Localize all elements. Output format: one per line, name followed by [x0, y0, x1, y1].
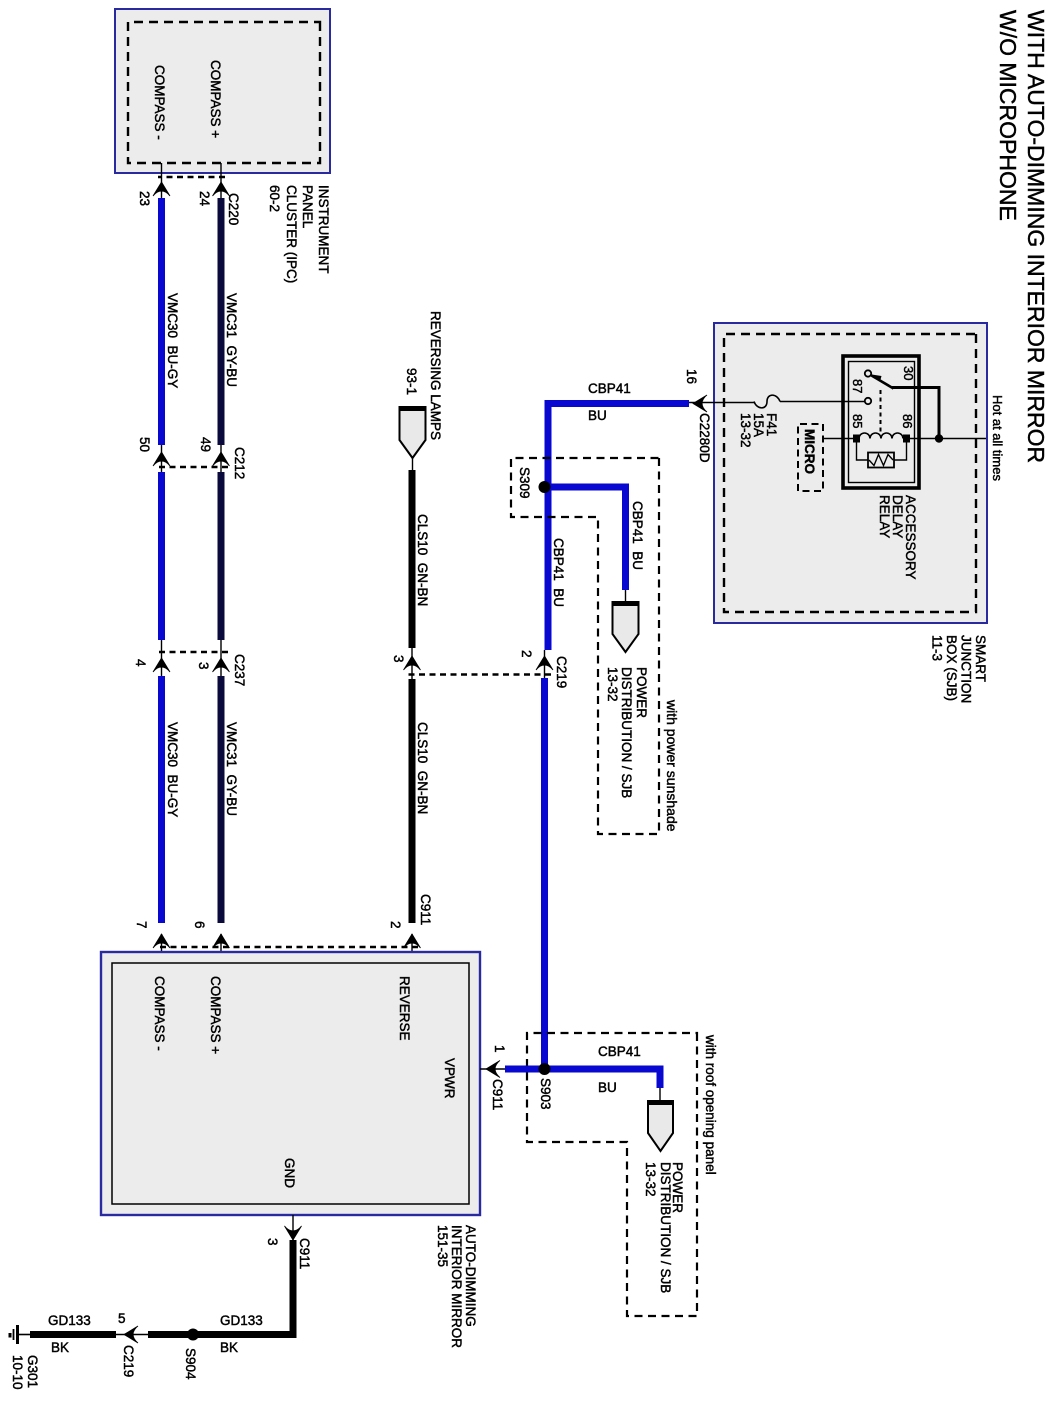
- svg-text:4: 4: [133, 659, 148, 667]
- svg-text:CBP41 BU: CBP41 BU: [630, 501, 645, 570]
- svg-text:VMC31 GY-BU: VMC31 GY-BU: [224, 293, 239, 387]
- hot feed line: [909, 438, 986, 440]
- mirror name label AUTO-DIMMING INTERIOR MIRROR 151-35: [435, 1225, 478, 1348]
- splice S309 dot: [539, 481, 551, 493]
- svg-text:S309: S309: [517, 467, 532, 499]
- svg-text:COMPASS +: COMPASS +: [208, 60, 223, 138]
- svg-text:BK: BK: [220, 1340, 238, 1355]
- S903 branch stub: [659, 1088, 661, 1101]
- instrument panel cluster (IPC) box: [115, 9, 330, 173]
- svg-text:60-2: 60-2: [267, 185, 282, 212]
- svg-text:C237: C237: [232, 654, 247, 686]
- svg-text:1: 1: [492, 1045, 507, 1053]
- C212 arrow on VMC31: [213, 452, 230, 466]
- connector C212 dashed tie: [155, 466, 228, 468]
- svg-text:G301: G301: [25, 1355, 40, 1388]
- wire VMC31 GY-BU segment 2: [218, 472, 225, 640]
- wire GD133 BK from C219 to ground: [30, 1331, 116, 1338]
- svg-text:87: 87: [850, 379, 865, 393]
- svg-text:CBP41: CBP41: [588, 381, 631, 396]
- VPWR drop lead: [480, 1068, 505, 1070]
- svg-text:30: 30: [901, 366, 916, 380]
- C911 pin 7 arrow: [153, 934, 170, 948]
- svg-text:COMPASS -: COMPASS -: [152, 976, 167, 1051]
- wire CBP41 BU from pin 16 to C219: [548, 404, 689, 651]
- svg-text:CBP41: CBP41: [598, 1044, 641, 1059]
- svg-text:C2280D: C2280D: [697, 413, 712, 463]
- splice S903 dot: [539, 1063, 551, 1075]
- svg-text:COMPASS +: COMPASS +: [208, 976, 223, 1054]
- svg-text:S904: S904: [183, 1348, 198, 1380]
- svg-text:GD133: GD133: [48, 1313, 91, 1328]
- svg-text:13-32: 13-32: [643, 1162, 658, 1197]
- svg-text:3: 3: [391, 655, 406, 663]
- svg-text:DISTRIBUTION / SJB: DISTRIBUTION / SJB: [658, 1162, 673, 1293]
- svg-text:AUTO-DIMMING: AUTO-DIMMING: [463, 1225, 478, 1327]
- svg-text:GND: GND: [282, 1158, 297, 1188]
- C911 pin 6 arrow: [213, 934, 230, 948]
- dashed option region with power sunshade: [511, 458, 659, 834]
- svg-text:23: 23: [137, 191, 152, 206]
- svg-text:50: 50: [137, 437, 152, 452]
- svg-text:151-35: 151-35: [435, 1225, 450, 1267]
- svg-text:C911: C911: [297, 1238, 312, 1269]
- relay switch arm: [869, 374, 894, 389]
- connector C911 dashed tie at mirror: [156, 946, 418, 948]
- svg-text:VMC30 BU-GY: VMC30 BU-GY: [165, 293, 180, 388]
- relay name label ACCESSORY DELAY RELAY: [877, 495, 918, 580]
- svg-text:13-32: 13-32: [738, 413, 753, 448]
- svg-text:5: 5: [118, 1311, 126, 1326]
- svg-text:WITH AUTO-DIMMING INTERIOR MIR: WITH AUTO-DIMMING INTERIOR MIRROR: [1023, 10, 1049, 463]
- C219 arrow on CLS10 pin 3: [404, 656, 421, 670]
- svg-text:6: 6: [192, 921, 207, 929]
- svg-text:JUNCTION: JUNCTION: [959, 635, 974, 703]
- svg-text:11-3: 11-3: [930, 635, 945, 661]
- line from coil 85 to micro box: [823, 438, 853, 440]
- C212 arrow on VMC30: [153, 452, 170, 466]
- wire CLS10 thin bridge at C219: [411, 648, 413, 679]
- svg-text:BOX (SJB): BOX (SJB): [944, 635, 959, 701]
- wire CLS10 GN-BN segment 2: [409, 679, 416, 923]
- line from 87 contact to fuse: [780, 401, 866, 403]
- svg-text:C911: C911: [490, 1079, 505, 1110]
- svg-text:BU: BU: [598, 1080, 617, 1095]
- svg-text:2: 2: [519, 650, 534, 658]
- svg-text:with roof opening panel: with roof opening panel: [703, 1034, 718, 1175]
- wire VMC30 thin bridge at C212: [161, 445, 163, 472]
- svg-text:13-32: 13-32: [605, 667, 620, 702]
- wire VMC30 BU-GY segment 1: [158, 198, 165, 445]
- relay switch pivot contact circle: [865, 370, 871, 376]
- svg-text:VMC31 GY-BU: VMC31 GY-BU: [224, 722, 239, 816]
- hot feed junction dot: [935, 434, 943, 442]
- C220 pin 24 lead: [220, 163, 222, 198]
- relay coil: [859, 433, 903, 439]
- wire VMC31 GY-BU segment 1: [218, 198, 225, 445]
- relay suppression resistor: [857, 439, 907, 468]
- C2280D pin 16 arrow: [693, 395, 707, 412]
- GND lead from mirror box: [292, 1215, 294, 1240]
- svg-text:CBP41 BU: CBP41 BU: [551, 538, 566, 607]
- power distribution arrow symbol (roof): [647, 1101, 674, 1151]
- reversing lamps origin arrow symbol: [399, 407, 427, 458]
- svg-text:REVERSE: REVERSE: [397, 976, 412, 1041]
- svg-text:COMPASS -: COMPASS -: [152, 65, 167, 140]
- relay coil terminal square 86: [903, 435, 910, 443]
- C237 arrow on VMC30: [153, 658, 170, 672]
- svg-text:85: 85: [850, 414, 865, 428]
- C911 pin 2 arrow: [404, 934, 421, 948]
- svg-text:C219: C219: [121, 1345, 136, 1377]
- C911 pin 3 arrow: [285, 1226, 302, 1240]
- ground symbol G301: [10, 1325, 30, 1344]
- wire GD133 BK from mirror to S904 and C219: [148, 1240, 293, 1335]
- wire VMC31 GY-BU segment 3: [218, 676, 225, 923]
- reversing lamps stub: [412, 458, 414, 470]
- VPWR drop wire CBP41: [505, 1066, 548, 1073]
- MICRO dashed box: [798, 424, 823, 491]
- C911 pin 2 lead: [411, 934, 413, 963]
- C237 arrow on VMC31: [213, 658, 230, 672]
- ground label G301 10-10: [10, 1355, 40, 1390]
- C220 pin 24 arrow: [213, 182, 230, 196]
- wire VMC30 thin bridge at C237: [161, 640, 163, 676]
- svg-text:C220: C220: [226, 193, 241, 225]
- wire CLS10 GN-BN segment 1: [409, 470, 416, 648]
- branch to relay pin 30: [892, 388, 939, 439]
- svg-text:93-1: 93-1: [404, 368, 419, 395]
- svg-text:86: 86: [900, 414, 915, 428]
- svg-text:PANEL: PANEL: [300, 185, 315, 229]
- svg-text:MICRO: MICRO: [802, 429, 817, 474]
- dashed option region with roof opening panel: [527, 1033, 697, 1316]
- svg-text:VPWR: VPWR: [442, 1058, 457, 1099]
- thin bridge at C219 pin 5: [116, 1334, 148, 1336]
- smart junction box (SJB): [714, 323, 987, 623]
- svg-text:3: 3: [196, 662, 211, 670]
- label POWER DISTRIBUTION / SJB 13-32 (roof): [643, 1162, 685, 1293]
- relay 87 contact circle: [865, 398, 871, 404]
- line from fuse to SJB edge: [689, 402, 754, 404]
- wire VMC30 BU-GY segment 3: [158, 676, 165, 923]
- connector C220 dashed tie: [158, 176, 225, 178]
- auto-dimming interior mirror box: [101, 952, 480, 1215]
- svg-text:3: 3: [265, 1238, 280, 1246]
- splice S904 dot: [187, 1329, 199, 1341]
- connector C219 dashed tie: [406, 673, 551, 675]
- svg-text:INTERIOR MIRROR: INTERIOR MIRROR: [449, 1225, 464, 1348]
- C911 pin 1 arrow: [486, 1061, 500, 1078]
- svg-text:49: 49: [198, 437, 213, 452]
- fuse F41 15A: [754, 395, 780, 408]
- power distribution arrow symbol (sunshade): [612, 602, 640, 652]
- label POWER DISTRIBUTION / SJB 13-32 (sunshade): [605, 667, 649, 798]
- C220 pin 23 arrow: [153, 182, 170, 196]
- svg-text:POWER: POWER: [634, 667, 649, 718]
- svg-text:VMC30 BU-GY: VMC30 BU-GY: [165, 722, 180, 817]
- wire CBP41 BU from C219 to S903: [541, 678, 548, 1069]
- C219 pin 2 arrow: [536, 656, 553, 670]
- svg-text:SMART: SMART: [973, 635, 988, 682]
- thin bridge at C219 on main run: [544, 650, 546, 678]
- C220 pin 23 lead: [161, 163, 163, 198]
- svg-text:CLUSTER (IPC): CLUSTER (IPC): [284, 185, 299, 283]
- C219 pin 5 arrow: [124, 1326, 138, 1343]
- svg-text:REVERSING LAMPS: REVERSING LAMPS: [428, 311, 443, 440]
- svg-text:W/O MICROPHONE: W/O MICROPHONE: [995, 10, 1021, 221]
- svg-text:GD133: GD133: [220, 1313, 263, 1328]
- svg-text:16: 16: [684, 369, 699, 384]
- svg-text:7: 7: [134, 921, 149, 929]
- accessory delay relay box: [843, 356, 919, 488]
- C911 pin 7 lead: [161, 934, 163, 963]
- IPC name label INSTRUMENT PANEL CLUSTER (IPC) 60-2: [267, 185, 331, 283]
- svg-text:Hot at all times: Hot at all times: [990, 395, 1005, 481]
- SJB name label SMART JUNCTION BOX (SJB) 11-3: [930, 635, 989, 703]
- fuse label F41 15A 13-32: [738, 413, 779, 448]
- svg-text:C219: C219: [554, 656, 569, 688]
- svg-text:24: 24: [197, 191, 212, 207]
- svg-text:with power sunshade: with power sunshade: [664, 699, 680, 832]
- svg-text:S903: S903: [538, 1078, 553, 1110]
- svg-text:INSTRUMENT: INSTRUMENT: [316, 185, 331, 274]
- svg-text:CLS10 GN-BN: CLS10 GN-BN: [415, 514, 430, 606]
- svg-text:RELAY: RELAY: [877, 495, 892, 538]
- wire VMC31 thin bridge at C212: [220, 445, 222, 472]
- svg-text:CLS10 GN-BN: CLS10 GN-BN: [415, 722, 430, 814]
- wire VMC31 thin bridge at C237: [220, 640, 222, 676]
- connector C237 dashed tie: [155, 651, 228, 653]
- svg-text:2: 2: [388, 921, 403, 929]
- svg-text:DISTRIBUTION / SJB: DISTRIBUTION / SJB: [619, 667, 634, 798]
- S309 branch stub: [625, 590, 627, 602]
- wire VMC30 BU-GY segment 2: [158, 472, 165, 640]
- C911 pin 6 lead: [220, 934, 222, 963]
- S903 branch wire CBP41 BU to roof panel feed: [541, 1069, 660, 1088]
- svg-text:BK: BK: [51, 1340, 69, 1355]
- S309 branch wire CBP41 BU: [545, 487, 626, 590]
- relay coil terminal square 85: [853, 435, 860, 443]
- svg-text:C911: C911: [418, 894, 433, 925]
- svg-text:10-10: 10-10: [10, 1355, 25, 1390]
- svg-text:BU: BU: [588, 408, 607, 423]
- relay actuator dashed link: [880, 390, 882, 433]
- svg-text:C212: C212: [232, 447, 247, 479]
